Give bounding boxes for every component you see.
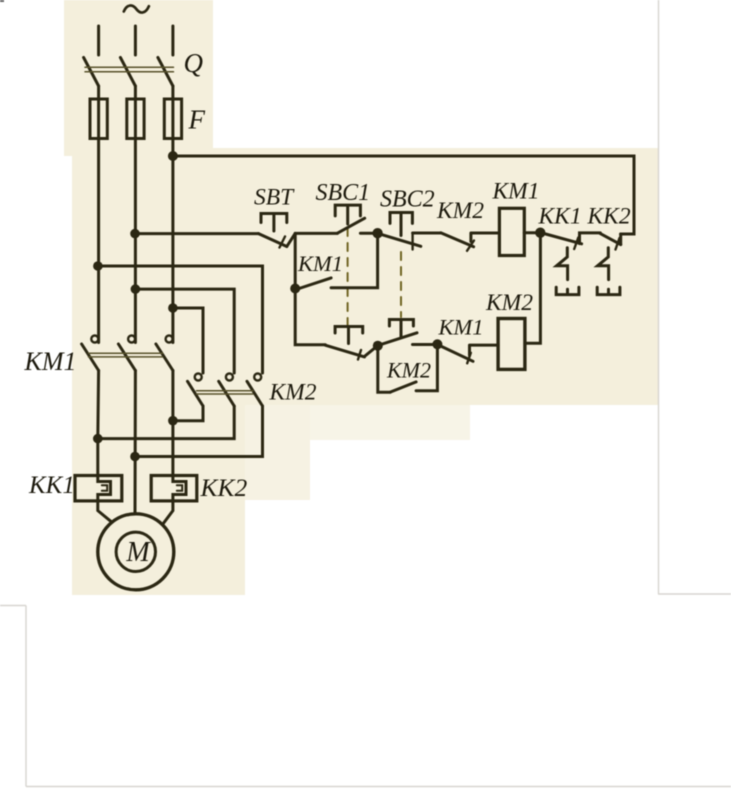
- node latch KM1: [290, 284, 300, 294]
- svg-text:KM1: KM1: [24, 347, 77, 376]
- node tap phase 1 to KM2: [93, 261, 103, 271]
- mechanical link SBC1: [347, 228, 349, 326]
- switch Q pole 3 blade: [158, 58, 173, 87]
- thermal relay KK2 heater body: [151, 476, 197, 501]
- wire KM1 coil to node E: [524, 231, 536, 234]
- wire node C down to latch KM2: [378, 346, 390, 393]
- button SBT actuator: [261, 214, 287, 232]
- motor M outer circle: [98, 514, 174, 590]
- node D: [432, 339, 442, 349]
- wire KM2 pole3 output to phase 2: [135, 406, 263, 457]
- wire phase 3: [171, 86, 174, 343]
- switch Q pole 2 blade: [120, 58, 135, 87]
- wire latch KM2 to node D: [416, 344, 437, 391]
- wire supply stub L1: [97, 26, 100, 55]
- node E: [535, 228, 545, 238]
- svg-text:F: F: [188, 105, 206, 135]
- node KM2 pole2 output junction: [93, 434, 103, 444]
- svg-text:Q: Q: [184, 48, 204, 78]
- wire to node D: [413, 343, 433, 346]
- node KM2 pole3 output junction: [130, 452, 140, 462]
- svg-text:KM2: KM2: [269, 380, 317, 406]
- button SBC2 NC contact blade: [378, 233, 421, 246]
- wire to node C: [365, 346, 378, 356]
- wire control row1 left: [135, 232, 259, 235]
- wire phase3 through heater KK2: [163, 371, 186, 524]
- wire control supply top: [173, 156, 634, 234]
- contact KM1 NO latch blade: [296, 278, 331, 290]
- svg-text:KM1: KM1: [492, 179, 540, 205]
- wire KK1 to KK2: [580, 233, 601, 244]
- node control row1 tap on phase 2: [130, 229, 140, 239]
- thermal element KK2 sensor: [598, 248, 609, 280]
- thermal element KK1 sensor: [557, 248, 568, 280]
- wire phase1 through heater KK1: [98, 371, 112, 523]
- button SBC1 NO contact blade: [337, 218, 364, 233]
- node tap phase 2 to KM2: [131, 284, 141, 294]
- contact KK2 NC blade: [600, 234, 620, 245]
- wire to KM2 coil: [470, 345, 499, 355]
- wire KM2 pole2 output to phase 1: [98, 406, 234, 439]
- contactor KM1 linkage bar: [89, 353, 163, 357]
- contactor KM2 main contact terminals: [195, 374, 262, 381]
- svg-text:M: M: [125, 537, 151, 568]
- button SBT NC contact tick: [280, 237, 286, 248]
- node tap phase 3 to KM2: [168, 303, 178, 313]
- wire supply stub L3: [171, 26, 174, 55]
- node control supply tap on phase 3: [168, 151, 178, 161]
- button SBT NC contact blade: [259, 234, 287, 247]
- contactor KM1 main contact terminals: [91, 336, 172, 343]
- svg-text:KK1 KK2: KK1 KK2: [538, 204, 631, 230]
- svg-text:SBT: SBT: [254, 185, 295, 211]
- mechanical link SBC2: [400, 252, 402, 317]
- AC source symbol ~: [124, 6, 149, 13]
- button SBC2 NO lower blade: [378, 333, 417, 346]
- svg-text:KK1: KK1: [28, 472, 75, 499]
- switch Q pole 1 blade: [84, 58, 99, 87]
- wire node A down to latch: [294, 233, 297, 288]
- thermal element KK2 bracket: [597, 287, 620, 294]
- wire phase2 to motor: [134, 371, 137, 515]
- svg-text:KK2: KK2: [200, 473, 248, 502]
- contact KK2 NC tick: [616, 238, 620, 250]
- contactor KM2 main blades: [188, 381, 263, 406]
- thermal relay KK2 heater inner bracket: [177, 485, 182, 491]
- button SBC2 NC contact terminal tick: [411, 233, 413, 250]
- wire phase 2: [134, 86, 137, 343]
- button SBC2 actuator: [390, 213, 412, 236]
- fuse F pole 1: [90, 99, 107, 139]
- contact KM2 NC interlock blade: [441, 233, 474, 247]
- svg-text:KM2: KM2: [436, 198, 484, 224]
- thermal element KK1 bracket: [556, 287, 579, 294]
- wire SBC1 to node B: [360, 232, 377, 235]
- wire latch node down to row2: [295, 289, 325, 345]
- button SBC1 NC lower blade: [325, 345, 364, 357]
- node KM2 pole1 output junction: [168, 416, 178, 426]
- wire latch KM1 to node B: [331, 233, 378, 288]
- svg-text:SBC2: SBC2: [380, 187, 435, 213]
- fuse F pole 2: [127, 99, 144, 139]
- wire KM2 pole1 output to phase 3: [173, 406, 203, 421]
- contact KM2 NO latch blade: [390, 382, 416, 392]
- motor M inner circle: [116, 532, 155, 571]
- contact KK1 NC blade: [542, 233, 582, 244]
- wire phase1 tap to KM2 pole3: [99, 266, 263, 373]
- svg-text:SBC1: SBC1: [316, 180, 371, 206]
- thermal relay KK1 heater body: [75, 476, 122, 501]
- svg-text:KM2: KM2: [485, 290, 533, 316]
- button SBC1 NC lower tick: [358, 350, 361, 360]
- contact KM2 NC interlock tick: [467, 241, 474, 251]
- button SBC1 actuator: [335, 205, 360, 224]
- svg-text:KM1: KM1: [438, 315, 484, 340]
- contact KK1 NC tick: [574, 238, 578, 250]
- contact KM1 NC interlock blade: [437, 345, 473, 362]
- node C: [373, 341, 383, 351]
- node B: [372, 228, 382, 238]
- wire KK2 to supply: [619, 234, 622, 245]
- contactor KM1 main blades: [82, 344, 173, 371]
- coil KM1: [499, 208, 524, 255]
- wire supply stub L2: [134, 26, 137, 55]
- wire KM2 coil to node E: [525, 233, 541, 344]
- fuse F pole 3: [164, 99, 181, 139]
- coil KM2: [498, 319, 525, 370]
- svg-text:KM2: KM2: [386, 358, 431, 383]
- switch Q linkage bar: [85, 67, 174, 71]
- button SBC2 NO lower actuator: [389, 320, 413, 338]
- wire SBC2 to KM2 interlock: [413, 232, 441, 235]
- button SBC1 NC lower actuator: [335, 327, 363, 344]
- wire phase2 tap to KM2 pole2: [135, 289, 234, 373]
- wire to KM1 coil: [471, 233, 500, 242]
- thermal relay KK1 heater inner bracket: [102, 485, 107, 491]
- svg-text:KM1: KM1: [297, 251, 343, 276]
- contactor KM2 linkage bar: [197, 391, 254, 394]
- wire phase 1: [97, 86, 100, 343]
- contact KM1 NC interlock tick: [467, 353, 471, 364]
- wire SBT to node A: [287, 233, 338, 246]
- wire phase3 tap to KM2 pole1: [173, 308, 203, 373]
